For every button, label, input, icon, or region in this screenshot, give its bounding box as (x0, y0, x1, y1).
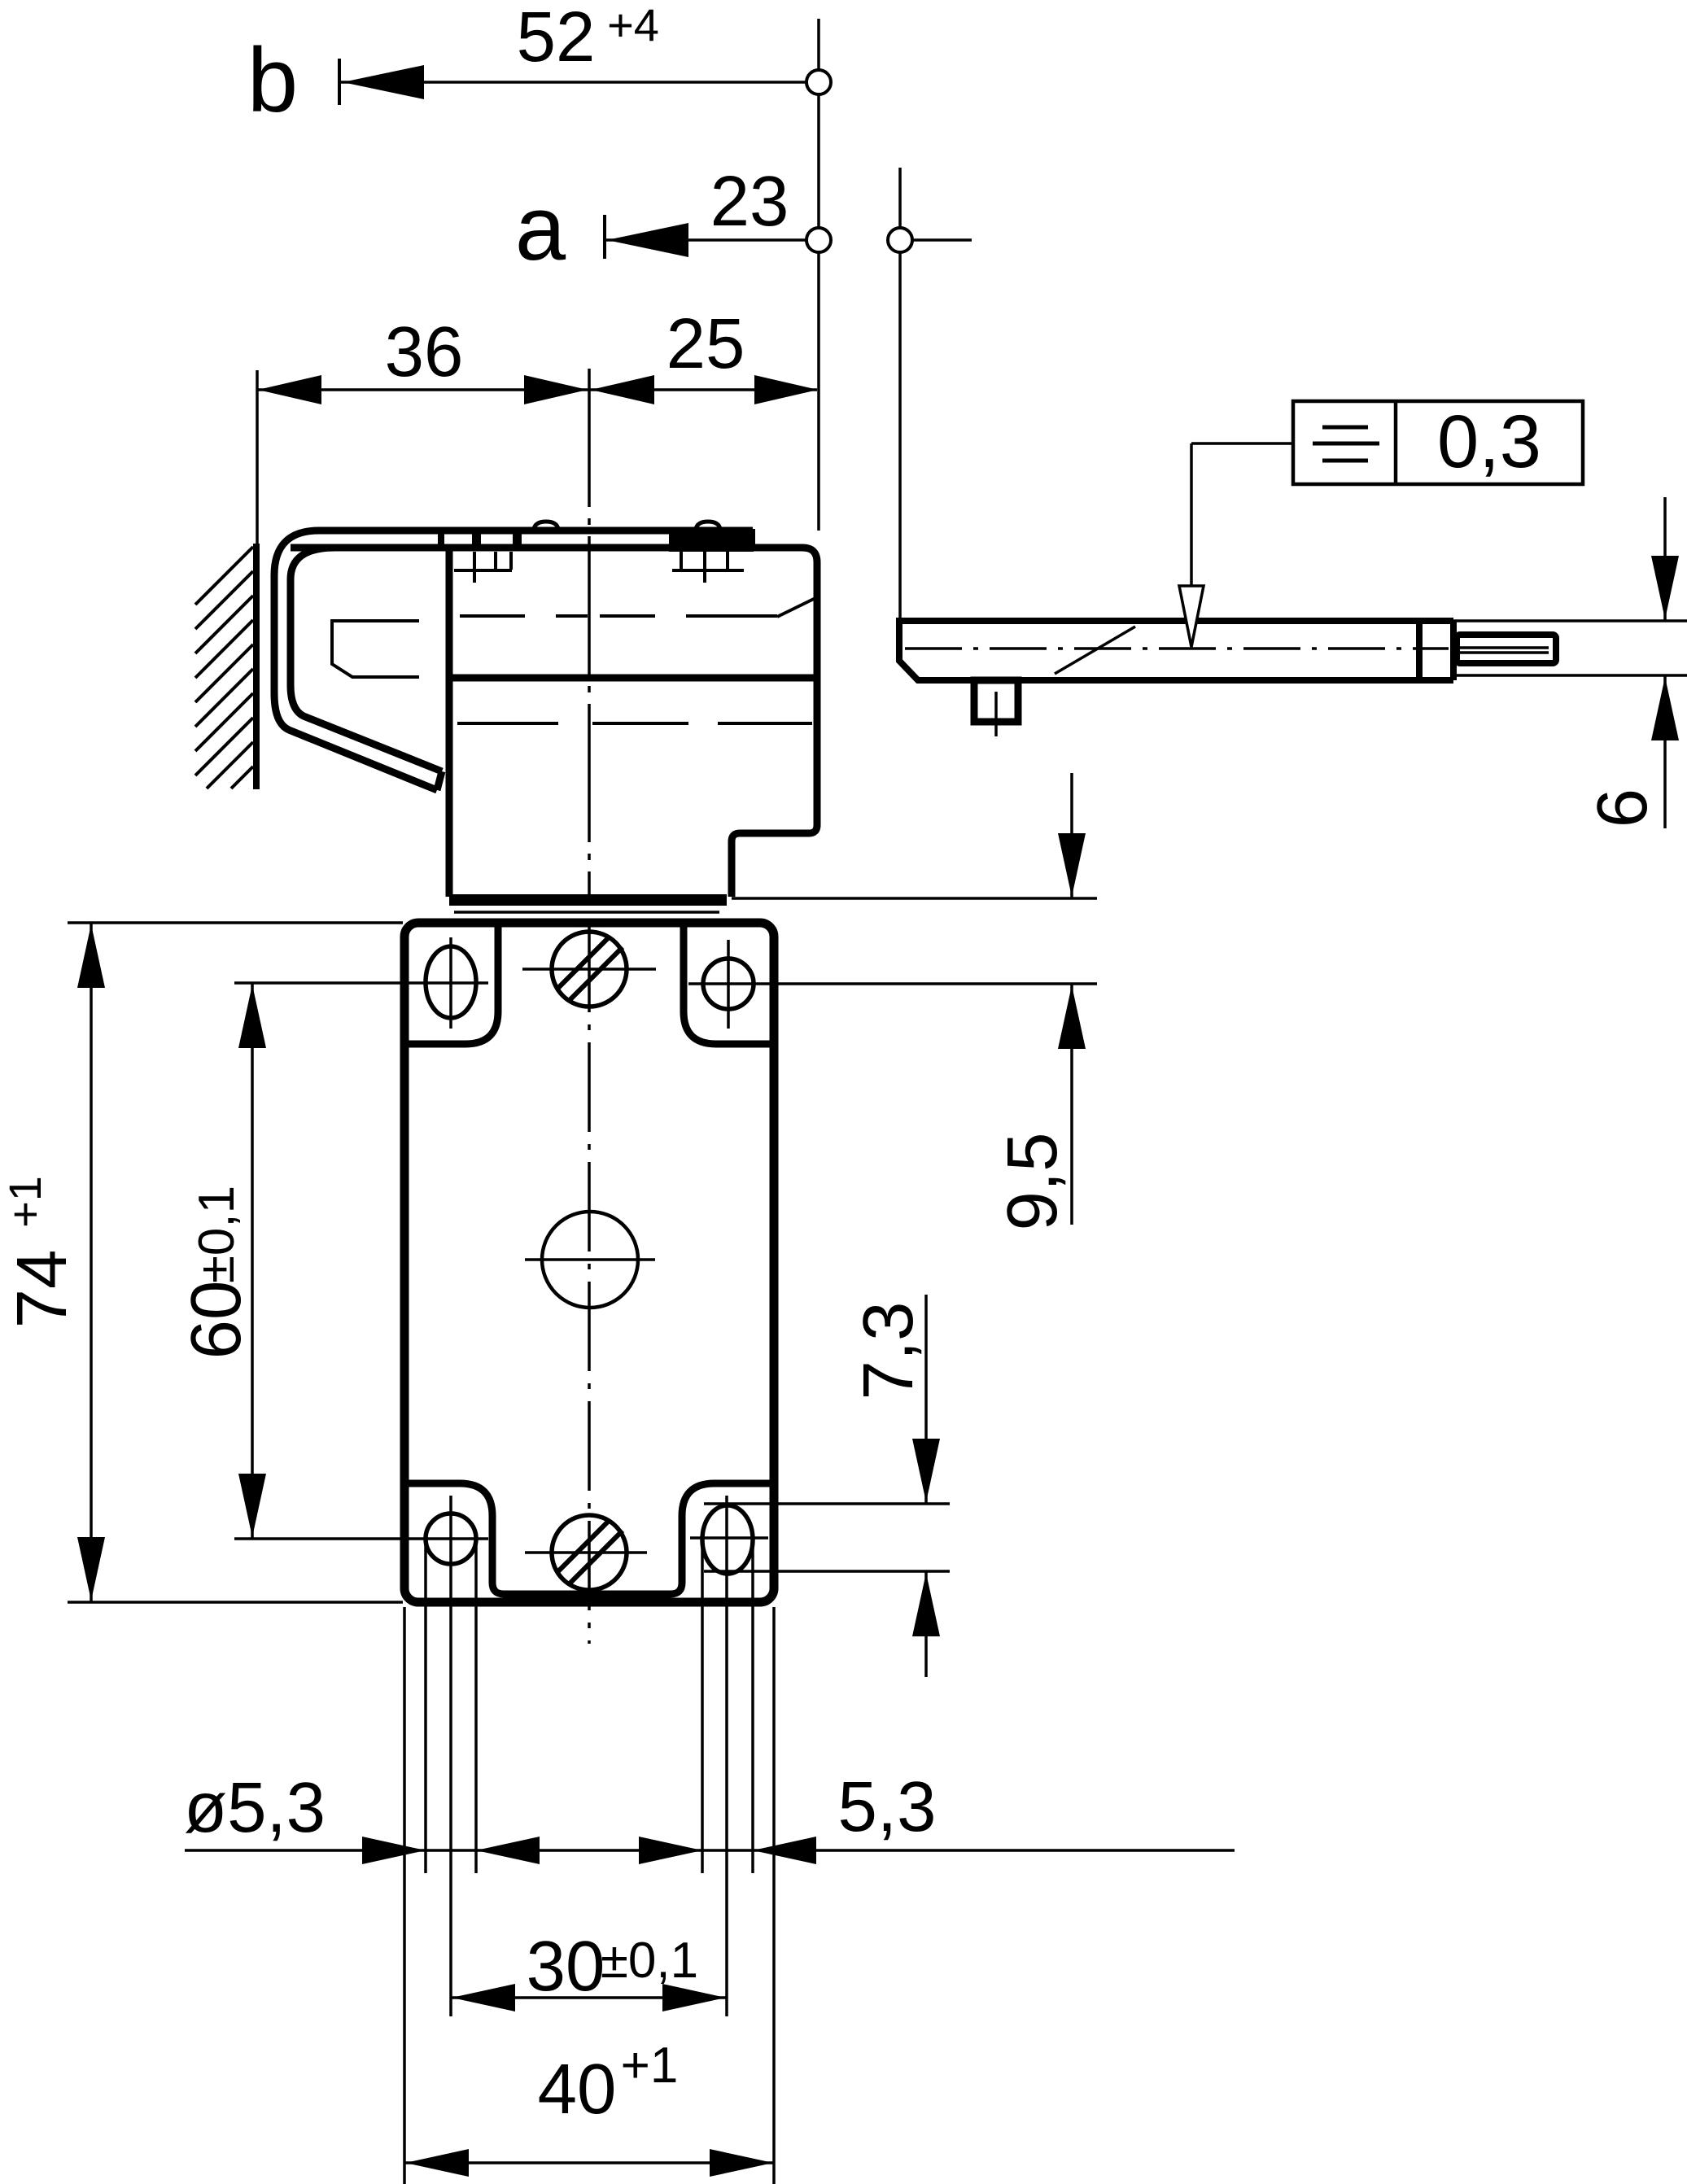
svg-text:+4: +4 (607, 0, 659, 50)
svg-text:±0,1: ±0,1 (601, 1933, 698, 1989)
hole bottom-left (426, 1514, 476, 1564)
head lower dash-dot line (457, 722, 812, 725)
svg-text:0,3: 0,3 (1437, 400, 1541, 483)
actuator key side view (899, 621, 1556, 736)
hole top-right (703, 959, 754, 1009)
center hole (525, 1212, 655, 1308)
mounting wall (195, 544, 256, 789)
dimension 7,3 (704, 1295, 950, 1677)
hole top-left vertical center line (449, 937, 452, 1029)
reference line 2 stub (912, 238, 972, 242)
dimension 74+1 (0, 923, 403, 1602)
main vertical center line body (588, 923, 591, 1644)
main vertical center line upper (588, 369, 591, 903)
hole bottom-right slot (702, 1505, 753, 1574)
node circle 52 (806, 70, 831, 94)
svg-text:a: a (515, 177, 566, 279)
dimension a 23 (515, 162, 807, 279)
head upper dash-dot line (460, 598, 815, 617)
svg-text:7,3: 7,3 (849, 1302, 928, 1400)
top screw circle hatched (522, 932, 656, 1007)
hole top-right vertical center line (727, 940, 730, 1029)
svg-text:5,3: 5,3 (838, 1767, 937, 1846)
svg-text:ø5,3: ø5,3 (184, 1768, 326, 1847)
svg-text:40: 40 (538, 2050, 617, 2129)
node circle 23 right (888, 228, 912, 252)
svg-text:30: 30 (527, 1927, 605, 2006)
slot center extension left (449, 1496, 452, 2016)
vertical reference line 2 (898, 168, 902, 618)
spring clip outer profile (274, 531, 753, 790)
dimension diam 5,3 (184, 1540, 1235, 1873)
bottom screw circle hatched (525, 1515, 647, 1590)
dimension 9,5 (688, 773, 1097, 1230)
plate tabs (438, 531, 754, 552)
inner plate top-left cutout (407, 927, 498, 1044)
spring clip inner profile (291, 548, 449, 771)
svg-text:b: b (247, 29, 298, 131)
svg-text:±0,1: ±0,1 (189, 1186, 245, 1283)
dimension 30 +-0,1 (451, 1927, 727, 2011)
screw body right (672, 552, 744, 583)
clip key pocket (332, 621, 419, 677)
dimension b 52+4 (247, 0, 806, 131)
svg-text:52: 52 (517, 0, 596, 76)
node circle 23 left (806, 228, 831, 252)
svg-text:6: 6 (1583, 788, 1662, 828)
switch body outline (404, 923, 774, 1602)
flange thin underline (454, 911, 719, 914)
dimension 40+1 (404, 1607, 774, 2184)
head divider line (449, 675, 817, 682)
slot center extension right (725, 1496, 728, 2016)
spring clip step at right end (750, 529, 755, 547)
svg-text:+1: +1 (621, 2038, 679, 2094)
screw dome left (534, 522, 558, 529)
dimension 6 (1453, 497, 1687, 828)
svg-text:9,5: 9,5 (993, 1133, 1072, 1231)
flatness callout 0,3 (1179, 400, 1583, 647)
dimension 36 25 (257, 304, 818, 544)
screw body left (454, 552, 512, 583)
svg-text:36: 36 (385, 312, 464, 391)
hole bottom-right horizontal center line (690, 1536, 768, 1540)
hole top-left slot (426, 946, 476, 1018)
inner plate top-right cutout (684, 927, 771, 1044)
svg-text:+1: +1 (0, 1176, 50, 1228)
inner plate bottom edge with corner cutouts (407, 1483, 771, 1594)
head bottom flange (449, 894, 727, 906)
screw dome right (696, 522, 720, 529)
head left edge (446, 548, 453, 897)
head outline (291, 548, 817, 897)
spring clip end cap (437, 771, 442, 790)
svg-text:60: 60 (177, 1281, 256, 1360)
dimension 60 +-0,1 (177, 983, 488, 1539)
vertical reference line 1 (817, 19, 820, 531)
svg-text:74: 74 (2, 1250, 81, 1329)
svg-text:25: 25 (666, 304, 745, 383)
svg-text:23: 23 (710, 162, 789, 241)
